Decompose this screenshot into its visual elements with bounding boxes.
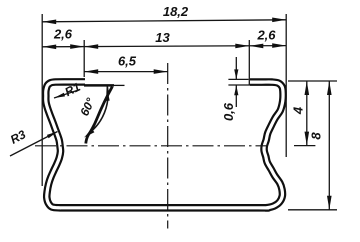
svg-text:13: 13 <box>155 30 170 45</box>
svg-text:6,5: 6,5 <box>118 54 137 69</box>
svg-text:4: 4 <box>290 106 305 115</box>
svg-text:2,6: 2,6 <box>53 27 73 42</box>
svg-text:8: 8 <box>309 132 324 140</box>
svg-text:2,6: 2,6 <box>256 28 276 43</box>
svg-text:18,2: 18,2 <box>163 4 189 19</box>
svg-text:0,6: 0,6 <box>221 102 236 121</box>
